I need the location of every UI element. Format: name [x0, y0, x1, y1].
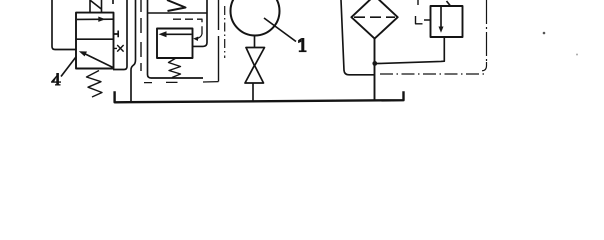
pilot line dashed [173, 19, 202, 41]
filter diamond [351, 0, 397, 39]
stray ink speck [543, 32, 546, 35]
junction dot [372, 61, 377, 66]
leader line to label 1 [264, 18, 296, 42]
pump circle 1 [231, 0, 280, 36]
wire left supply to valve 4 [52, 0, 76, 50]
valve 4 divider [76, 38, 114, 40]
label 1 [298, 38, 306, 52]
filter dashed middle line [354, 16, 395, 18]
wire return line down to filter junction [341, 0, 375, 75]
wire shutoff valve to tank [252, 83, 254, 101]
wire junction to lubricator box [375, 38, 444, 64]
dash-dot boundary bottom right [380, 73, 484, 75]
label 4 [51, 73, 61, 86]
dashed enclosure right edge [218, 0, 220, 82]
wire inner loop left and bottom [148, 0, 204, 78]
valve 4 upper flow path arrow [77, 17, 113, 22]
shutoff valve bowtie [245, 48, 265, 84]
solenoid actuator on valve 4 [90, 0, 102, 13]
reducing valve body [157, 29, 193, 59]
dash-dot corner left of lubricator [416, 0, 431, 24]
dash-dot boundary right vertical [482, 0, 487, 71]
wire pump to shutoff valve [254, 36, 256, 48]
spring above reducing valve (cut) [167, 0, 186, 11]
overshoot tick above valve 4 top right corner [112, 0, 114, 4]
lubricator box [431, 6, 463, 37]
wire inner right vertical to reducing valve outlet [193, 0, 208, 46]
valve 4 body [76, 13, 114, 69]
valve 4 right port closed X [113, 45, 124, 52]
lubricator internal arrow [439, 6, 444, 33]
reducing valve flow arrow [159, 31, 192, 37]
stray faint speck [576, 54, 578, 56]
wire from valve 4 bottom port up to top edge [113, 0, 127, 70]
dashed enclosure bottom edge [144, 82, 219, 83]
wire stub above lubricator [447, 1, 451, 6]
valve 4 return spring [87, 71, 103, 98]
tank [115, 91, 404, 102]
leader line from label 4 [61, 57, 76, 77]
dash-dot centerline between enclosure and pump [224, 6, 226, 58]
reducing valve spring [169, 58, 181, 78]
dashed enclosure left edge [140, 0, 142, 71]
valve 4 lower flow path arrow [79, 51, 113, 67]
wire inner loop top [148, 12, 208, 14]
valve 4 right port plugged stub [113, 31, 118, 38]
wire from top edge down to tank [131, 0, 136, 101]
wire filter down to tank [374, 39, 376, 101]
